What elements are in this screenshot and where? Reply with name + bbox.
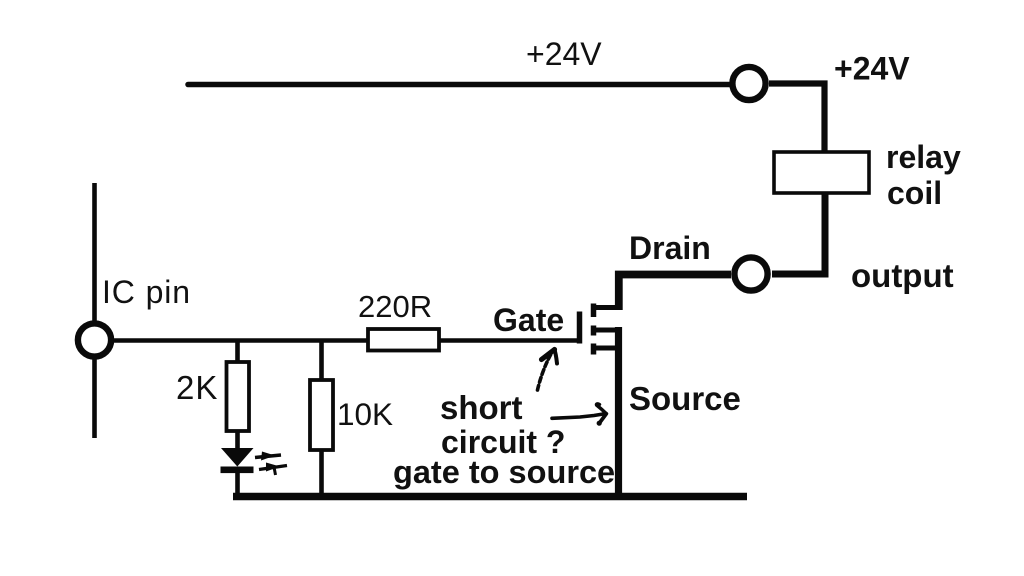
wire +24V top rail [188,82,729,88]
svg-text:Source: Source [629,380,741,417]
LED D1 [221,448,254,473]
node IC pin [78,323,111,356]
gate bar [577,312,583,344]
drain stub [594,305,620,310]
annotation short circuit ? gate to source [393,389,615,490]
svg-text:short: short [440,389,523,426]
LED emission arrows [255,452,287,476]
wire 10K branch top [319,341,324,381]
net label +24V (rail) [526,36,602,72]
wire IC pin to gate (main horizontal) [112,338,578,343]
MOSFET Q1 (N-channel) [580,304,620,355]
svg-text:gate to source: gate to source [393,454,615,490]
channel segment source [591,344,597,355]
label relay coil [886,139,961,211]
wire IC pin vertical [92,183,97,438]
svg-text:IC pin: IC pin [102,274,191,310]
annotation arrow to source [552,404,606,426]
channel segment drain [591,304,597,318]
ground rail [233,493,747,501]
label output [851,257,954,294]
resistor 10K [310,380,333,450]
wire 2K to LED [235,431,240,450]
svg-text:Gate: Gate [493,302,564,338]
value label 2K [176,369,218,406]
svg-text:output: output [851,257,954,294]
label IC pin [102,274,191,310]
wire 2K branch top [235,341,240,363]
relay coil [774,152,869,193]
label Drain [629,230,711,266]
body stub [594,328,618,333]
resistor 220R [368,329,439,351]
value label 10K [337,396,393,432]
wire +24V node to relay coil [769,84,825,155]
resistor 2K [227,362,250,431]
svg-text:+24V: +24V [834,51,910,87]
svg-text:+24V: +24V [526,36,602,72]
node +24V junction [732,67,765,100]
node output junction [734,257,767,290]
annotation arrow to gate [538,350,558,391]
label Source [629,380,741,417]
wire LED to ground rail [235,472,240,495]
svg-text:2K: 2K [176,369,218,406]
wire relay coil to output node [772,193,825,274]
svg-text:Drain: Drain [629,230,711,266]
net label +24V (output side, bold) [834,51,910,87]
svg-text:220R: 220R [358,289,432,324]
svg-text:10K: 10K [337,396,393,432]
wire drain to output node [619,275,731,311]
svg-text:coil: coil [887,175,942,211]
wire source to ground rail [615,327,622,496]
value label 220R [358,289,432,324]
source stub [594,346,618,351]
channel segment body [591,326,597,336]
wire 10K to ground rail [319,450,324,495]
svg-text:relay: relay [886,139,961,175]
label Gate [493,302,564,338]
